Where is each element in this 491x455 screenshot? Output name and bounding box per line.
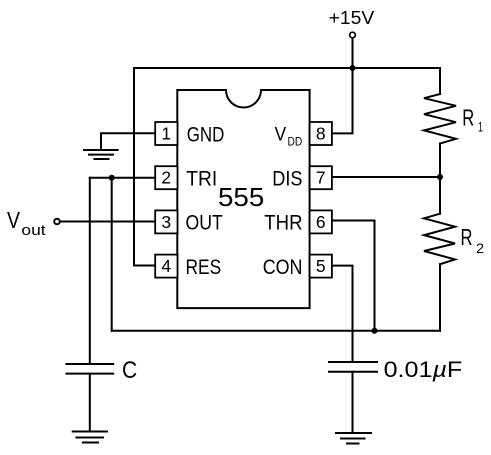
junction dot THR <box>372 328 378 334</box>
wire pin 5 (CON) <box>332 266 353 362</box>
svg-text:OUT: OUT <box>186 212 223 235</box>
svg-text:GND: GND <box>187 124 225 147</box>
pin 7 box <box>310 166 332 189</box>
svg-text:4: 4 <box>161 256 171 276</box>
svg-text:1: 1 <box>478 119 483 135</box>
svg-text:+15V: +15V <box>329 8 375 28</box>
svg-text:C: C <box>122 357 137 384</box>
svg-text:out: out <box>21 223 45 239</box>
svg-text:THR: THR <box>264 212 302 235</box>
svg-text:8: 8 <box>316 124 326 144</box>
wire pin 7 (DIS) <box>332 176 441 178</box>
svg-text:2: 2 <box>161 168 171 188</box>
output terminal Vout <box>54 219 60 225</box>
svg-text:DD: DD <box>288 135 303 149</box>
wire bottom rail <box>112 330 440 332</box>
wire R2 top lead <box>439 177 441 214</box>
power terminal +15V <box>350 32 356 38</box>
svg-text:7: 7 <box>316 168 326 188</box>
svg-text:TRI: TRI <box>186 167 217 190</box>
wire pin 1 (GND) <box>101 133 156 149</box>
pin 5 box <box>310 255 332 278</box>
svg-text:DIS: DIS <box>272 167 302 190</box>
junction dot DIS / R1 / R2 <box>437 174 443 180</box>
wire TRI riser <box>111 178 113 331</box>
svg-text:V: V <box>7 207 20 233</box>
wire R2 bottom lead <box>439 264 441 331</box>
wire 0.01uF capacitor to ground <box>352 372 354 433</box>
wire pin 2 (TRI) <box>90 177 156 179</box>
capacitor C <box>66 364 113 374</box>
ground below C <box>73 432 107 443</box>
IC U1 555 timer body <box>177 90 309 308</box>
wire +15V top rail <box>134 67 440 69</box>
pin 3 box <box>155 210 177 233</box>
junction dot TRI <box>109 175 115 181</box>
svg-text:0.01µF: 0.01µF <box>384 357 463 382</box>
svg-text:6: 6 <box>316 212 326 232</box>
svg-text:1: 1 <box>161 124 171 144</box>
wire pin 8 (VDD) riser <box>332 68 353 133</box>
ground at pin 1 <box>84 150 118 159</box>
resistor R2 <box>424 214 455 265</box>
pin 8 box <box>310 122 332 145</box>
svg-text:CON: CON <box>263 256 303 279</box>
svg-text:V: V <box>275 125 287 146</box>
pin 4 box <box>155 255 177 278</box>
wire +15V lead <box>352 38 354 68</box>
svg-text:RES: RES <box>186 256 222 279</box>
svg-text:5: 5 <box>316 256 326 276</box>
wire R1 top lead <box>439 68 441 94</box>
capacitor 0.01uF <box>329 362 377 372</box>
svg-text:3: 3 <box>161 212 171 232</box>
pin 2 box <box>155 166 177 189</box>
svg-text:R: R <box>462 104 474 130</box>
pin 1 box <box>155 122 177 145</box>
svg-text:2: 2 <box>476 240 484 256</box>
ground below 0.01uF <box>336 433 371 444</box>
resistor R1 <box>424 94 456 144</box>
junction dot +15V rail <box>350 65 356 71</box>
wire R1 bottom lead <box>439 144 441 178</box>
wire capacitor C to ground <box>89 374 91 432</box>
wire pin 6 (THR) <box>332 221 375 331</box>
wire pin 3 (OUT) to Vout <box>60 221 156 223</box>
pin 6 box <box>310 210 332 233</box>
svg-text:R: R <box>461 224 473 250</box>
wire TRI down to capacitor C <box>89 178 91 364</box>
wire left rail down to pin 4 (RES) <box>134 68 156 266</box>
svg-text:555: 555 <box>218 182 264 212</box>
